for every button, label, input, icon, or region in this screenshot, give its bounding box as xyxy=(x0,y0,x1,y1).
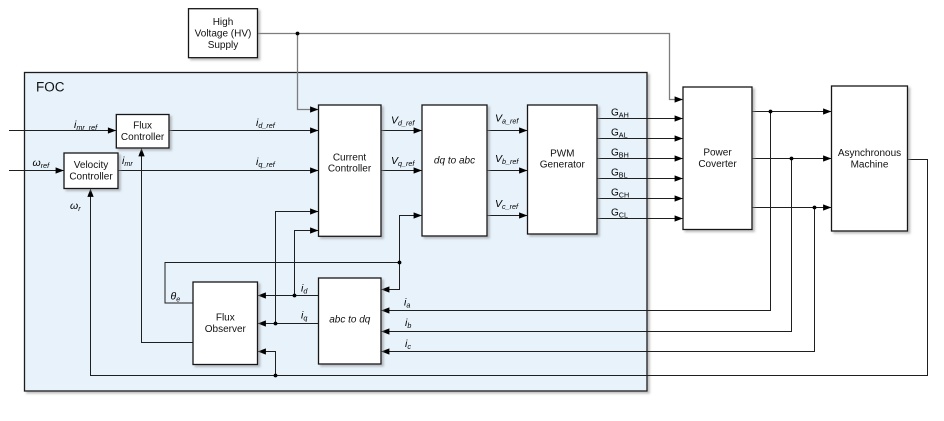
svg-text:abc to dq: abc to dq xyxy=(329,315,371,326)
wire Power Coverter phase C to machine xyxy=(752,207,831,209)
wire V_a_ref xyxy=(487,130,527,132)
node theta_e junction xyxy=(398,261,402,265)
wire gate G_AH xyxy=(597,118,683,120)
block dq to abc xyxy=(422,105,487,236)
node HV junction xyxy=(296,32,300,36)
block Flux Controller xyxy=(116,115,169,149)
svg-text:Machine: Machine xyxy=(851,159,889,170)
wire Power Coverter phase B to machine xyxy=(752,158,831,160)
wire w_r branch to Flux Observer xyxy=(258,352,276,376)
svg-text:Supply: Supply xyxy=(208,40,239,51)
wire gate G_BL xyxy=(597,178,683,180)
wire external input w_ref xyxy=(9,170,64,172)
svg-text:Flux: Flux xyxy=(133,121,152,132)
node i_b junction xyxy=(790,157,794,161)
node w_r junction xyxy=(274,374,278,378)
wire theta_e branch to abc to dq xyxy=(382,263,400,290)
FOC subsystem area xyxy=(25,73,648,392)
svg-text:FOC: FOC xyxy=(36,80,65,95)
svg-text:Velocity: Velocity xyxy=(74,160,108,171)
wire Velocity Controller to Current Controller i_q_ref xyxy=(118,170,318,172)
block Current Controller xyxy=(319,105,382,236)
svg-text:Controller: Controller xyxy=(121,132,165,143)
node i_a junction xyxy=(769,110,773,114)
wire gate G_BH xyxy=(597,158,683,160)
svg-text:Coverter: Coverter xyxy=(698,159,737,170)
svg-text:Asynchronous: Asynchronous xyxy=(838,148,901,159)
wire i_b feedback xyxy=(382,159,792,332)
svg-text:Controller: Controller xyxy=(69,172,113,183)
wire i_mr from Flux Observer to Flux Controller xyxy=(142,149,194,343)
wire HV supply output to Power Coverter xyxy=(258,34,683,100)
block Power Coverter xyxy=(683,87,752,230)
svg-text:Power: Power xyxy=(703,148,732,159)
wire i_q from abc to dq to Flux Observer xyxy=(258,323,319,325)
wire i_d branch up to Current Controller xyxy=(295,231,319,296)
svg-text:High: High xyxy=(213,17,234,28)
svg-text:Flux: Flux xyxy=(216,313,235,324)
block Asynchronous Machine xyxy=(832,86,908,231)
block PWM Generator xyxy=(528,105,598,234)
wire V_b_ref xyxy=(487,170,527,172)
wire gate G_CH xyxy=(597,198,683,200)
svg-text:Current: Current xyxy=(333,152,367,163)
svg-text:Observer: Observer xyxy=(205,324,247,335)
wire theta_e from Flux Observer to dq to abc xyxy=(165,216,422,304)
wire gate G_CL xyxy=(597,218,683,220)
node i_q junction xyxy=(274,322,278,326)
wire V_d_ref xyxy=(381,130,422,132)
svg-text:Voltage (HV): Voltage (HV) xyxy=(195,29,252,40)
block Velocity Controller xyxy=(64,153,118,189)
wire V_q_ref xyxy=(381,170,422,172)
svg-text:dq to abc: dq to abc xyxy=(434,155,475,166)
wire i_q branch up to Current Controller xyxy=(276,212,319,324)
block High Voltage (HV) Supply xyxy=(189,9,258,58)
wire external input imr_ref xyxy=(9,130,116,132)
wire i_c feedback xyxy=(382,208,815,352)
wire i_a feedback xyxy=(382,112,771,311)
wire i_d from abc to dq to Flux Observer xyxy=(258,295,319,297)
node i_d junction xyxy=(293,294,297,298)
wire gate G_AL xyxy=(597,138,683,140)
svg-text:Generator: Generator xyxy=(540,160,586,171)
block Flux Observer xyxy=(193,282,258,365)
svg-text:PWM: PWM xyxy=(550,148,574,159)
wire Flux Controller to Current Controller i_d_ref xyxy=(169,130,318,132)
block abc to dq xyxy=(319,278,382,364)
wire w_r feedback from Asynchronous Machine xyxy=(91,160,928,376)
node i_c junction xyxy=(813,206,817,210)
wire Power Coverter phase A to machine xyxy=(752,111,831,113)
wire HV branch down to Current Controller xyxy=(298,34,319,110)
svg-text:Controller: Controller xyxy=(328,163,372,174)
wire V_c_ref xyxy=(487,215,527,217)
